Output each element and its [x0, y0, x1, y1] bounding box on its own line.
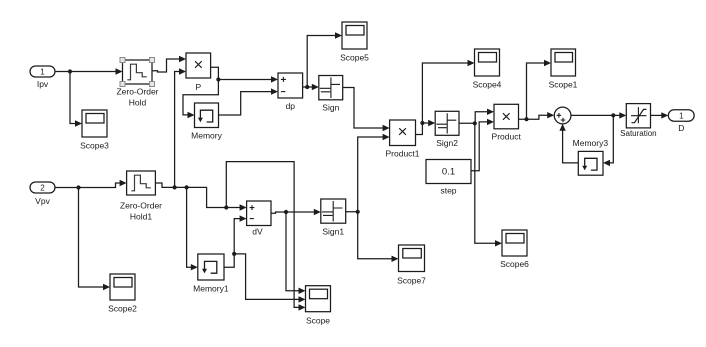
node junction P output [216, 77, 220, 81]
wire Saturation output to outport D [651, 112, 669, 118]
sign Sign1 [321, 199, 346, 237]
wire feedback to Memory3 input [603, 115, 613, 166]
svg-text:Zero-Order: Zero-Order [116, 87, 158, 97]
product P [186, 53, 211, 92]
svg-text:Sign1: Sign1 [322, 227, 344, 237]
svg-text:Sign: Sign [322, 103, 339, 113]
wire dp output to Sign [303, 84, 319, 90]
sum dV [247, 201, 271, 237]
inport 2 Vpv [30, 182, 55, 206]
sum dp [278, 73, 303, 111]
scope Scope4 [473, 49, 502, 90]
wire branch to P input2 [175, 68, 186, 187]
scope Scope5 [340, 22, 369, 63]
svg-text:Scope6: Scope6 [500, 259, 529, 269]
svg-text:1: 1 [679, 112, 684, 121]
node junction Ipv [68, 69, 72, 73]
wire Vpv to Zero-Order Hold1 [55, 180, 127, 188]
wire Ipv branch to Scope3 [70, 72, 82, 127]
node junction Product1 output [420, 121, 424, 125]
svg-text:Memory: Memory [191, 131, 222, 141]
svg-text:step: step [440, 186, 456, 196]
saturation Saturation [620, 104, 656, 138]
node junction Memory1 output [232, 252, 236, 256]
sum circle [554, 107, 571, 124]
memory Memory3 [573, 138, 609, 175]
svg-text:Scope7: Scope7 [397, 276, 426, 286]
wire branch to Scope input2 [234, 254, 305, 303]
zero-order hold (selected, with handles) [116, 58, 158, 108]
svg-text:Saturation: Saturation [620, 129, 656, 138]
node junction sum output [611, 113, 615, 117]
wire Vpv branch to Scope2 [79, 188, 111, 291]
wire branch to Scope1 [527, 60, 552, 119]
wire Sign2 branch to Scope6 [475, 123, 502, 246]
wire Sign output to Product1 input1 [343, 88, 390, 132]
wire branch over the top to Scope input3 [226, 162, 305, 311]
inport 1 Ipv [30, 66, 55, 89]
wire step output to Product input2 [471, 119, 494, 171]
wire branch to Memory1 [187, 187, 198, 270]
svg-text:Product1: Product1 [385, 149, 419, 159]
svg-text:D: D [678, 123, 684, 133]
svg-text:0.1: 0.1 [442, 167, 455, 178]
node junction A [173, 185, 177, 189]
scope Scope7 [397, 245, 426, 286]
wire P output branch to Memory [183, 80, 218, 119]
wire Zero-Order Hold1 output to dV plus [155, 183, 246, 211]
zero-order hold1 [120, 171, 162, 222]
node junction B [185, 185, 189, 189]
wire branch to Scope4 [422, 60, 474, 123]
svg-text:Scope: Scope [306, 316, 330, 326]
wire sum output to Saturation [571, 112, 626, 118]
node junction Sign2 output [473, 121, 477, 125]
node junction C [224, 205, 228, 209]
svg-text:Scope5: Scope5 [340, 53, 369, 63]
sign Sign2 [435, 111, 459, 148]
svg-text:Scope4: Scope4 [473, 80, 502, 90]
wire dV output to Sign1 [271, 209, 321, 215]
svg-text:dp: dp [286, 101, 296, 111]
svg-text:P: P [195, 82, 201, 92]
svg-text:Scope2: Scope2 [108, 304, 137, 314]
svg-text:Memory1: Memory1 [193, 284, 229, 294]
svg-text:1: 1 [40, 68, 45, 77]
svg-text:Scope1: Scope1 [549, 80, 578, 90]
scope Scope (3 inputs) [306, 286, 331, 326]
wire Sign1 branch to Scope7 [358, 212, 399, 262]
wire Memory output to dp minus [219, 88, 279, 115]
product Product [492, 104, 522, 141]
wire Memory3 output to sum bottom [559, 124, 578, 163]
svg-text:Zero-Order: Zero-Order [120, 201, 162, 211]
wire Product1 output to Sign2 [416, 120, 436, 135]
wire dV branch to Scope input1 [286, 212, 306, 294]
node junction Vpv [76, 185, 80, 189]
wire Ipv to Zero-Order Hold [55, 68, 123, 74]
wire dp branch to Scope5 [307, 32, 342, 87]
wire Zero-Order Hold to P input1 [152, 56, 186, 72]
constant step 0.1 [426, 160, 471, 196]
svg-text:dV: dV [252, 227, 263, 237]
product Product1 [385, 120, 419, 159]
sign Sign [319, 76, 343, 113]
scope Scope3 [80, 110, 109, 151]
wire Sign2 output to Product input1 [459, 109, 494, 124]
node junction dV output [284, 210, 288, 214]
svg-text:Hold: Hold [129, 98, 147, 108]
wire Memory1 output to dV minus [224, 215, 247, 267]
node junction dp output [305, 85, 309, 89]
node junction Sign1 output [356, 210, 360, 214]
svg-text:Scope3: Scope3 [80, 141, 109, 151]
outport 1 D [668, 110, 694, 133]
svg-text:Ipv: Ipv [37, 79, 49, 89]
wire P output to dp plus [211, 67, 278, 82]
svg-text:Product: Product [492, 132, 522, 142]
scope Scope1 [549, 49, 578, 90]
wire Product output to sum [519, 112, 555, 119]
wire Sign1 output to Product1 input2 [346, 134, 390, 212]
svg-text:Hold1: Hold1 [130, 212, 152, 222]
svg-text:2: 2 [40, 184, 45, 193]
scope Scope6 [500, 230, 529, 269]
node junction Product output [524, 117, 528, 121]
svg-text:Memory3: Memory3 [573, 138, 609, 148]
svg-text:Vpv: Vpv [35, 196, 50, 206]
memory Memory1 [193, 254, 229, 294]
memory Memory [191, 103, 222, 141]
scope Scope2 [108, 274, 137, 314]
svg-text:Sign2: Sign2 [436, 138, 458, 148]
